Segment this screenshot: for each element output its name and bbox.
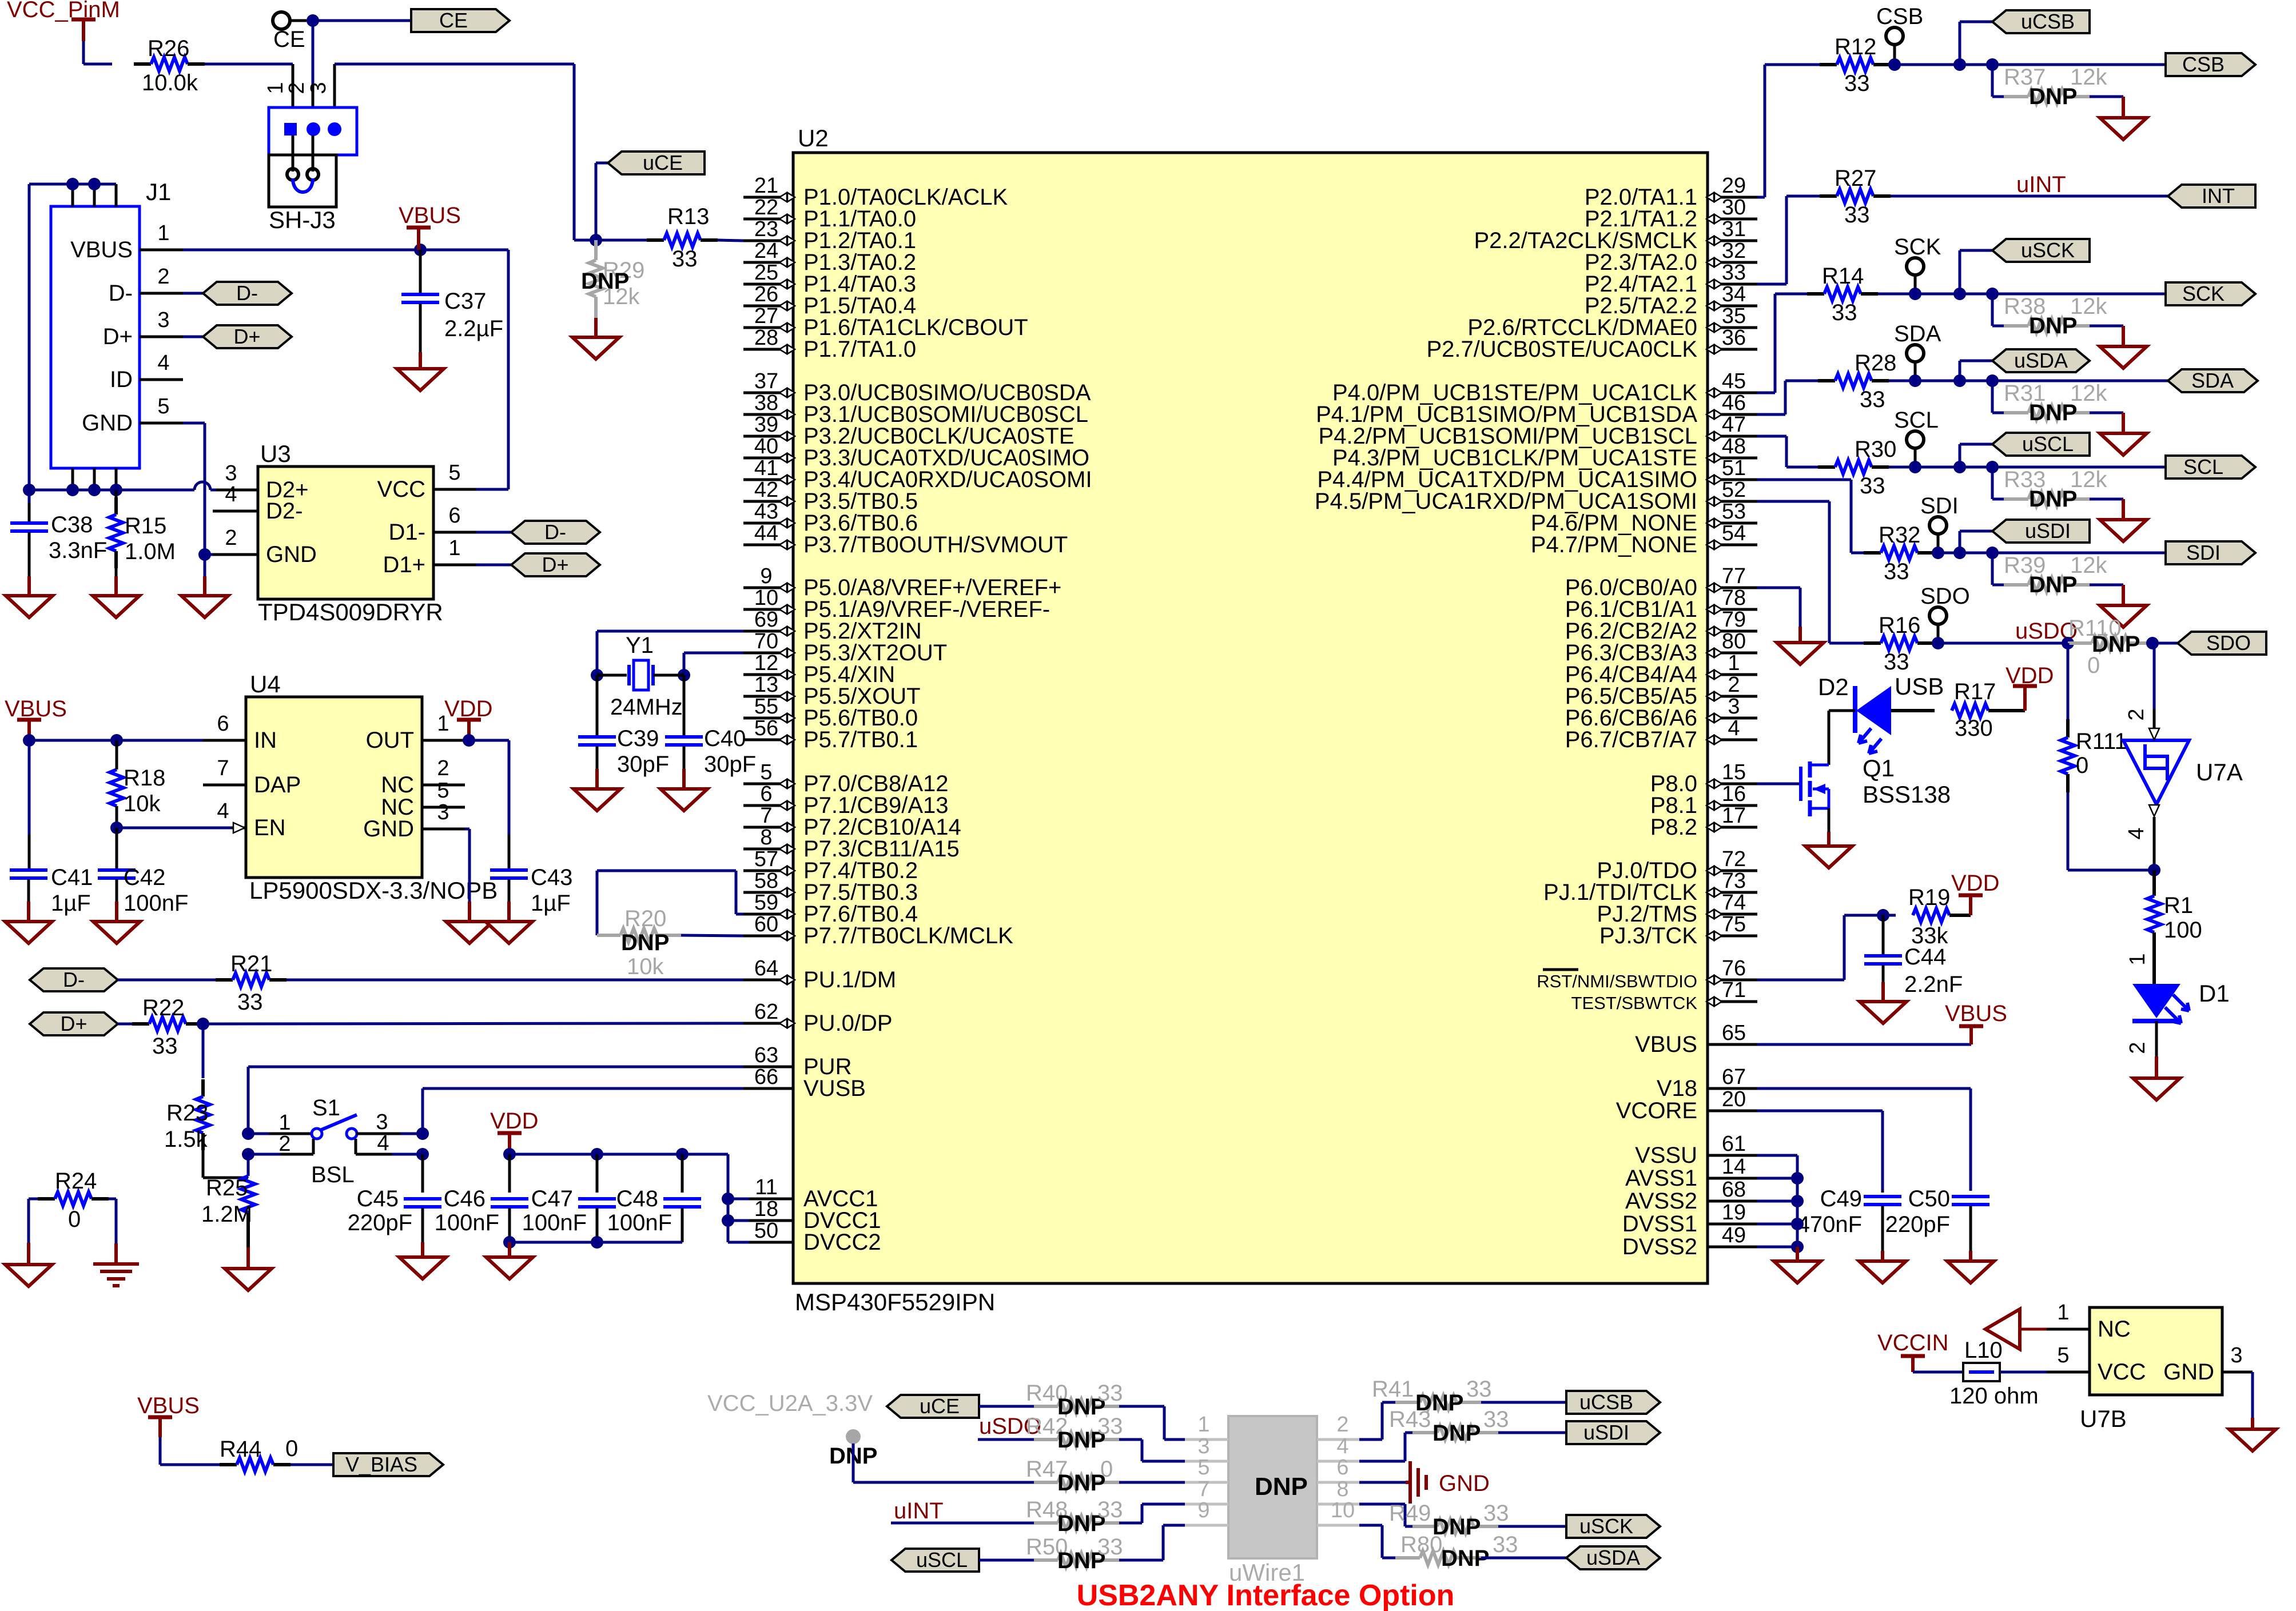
junction VSS AVSS1 (1791, 1172, 1804, 1185)
power flag VBUS (U4) (5, 696, 67, 740)
svg-text:12k: 12k (2070, 381, 2107, 406)
U2 pin 75 PJ.3/TCK (1599, 912, 1757, 948)
svg-text:DVCC2: DVCC2 (803, 1230, 881, 1255)
junction SCL 3 (1986, 461, 1999, 473)
junction SDA 2 (1953, 374, 1966, 387)
svg-text:CSB: CSB (1876, 4, 1923, 29)
svg-text:BSS138: BSS138 (1863, 781, 1951, 808)
svg-text:SCL: SCL (1894, 408, 1939, 433)
svg-text:D+: D+ (60, 1012, 87, 1035)
svg-text:D2: D2 (1818, 673, 1849, 700)
wire CE node to port (313, 19, 411, 22)
U4 pin 3 GND (363, 800, 465, 842)
U2 pin 39 P3.2/UCB0CLK/UCA0STE (743, 413, 1075, 449)
svg-text:60: 60 (754, 912, 778, 936)
svg-text:33: 33 (672, 246, 698, 272)
svg-text:12: 12 (754, 651, 778, 675)
U2 pin 42 P3.5/TB0.5 (743, 478, 918, 514)
svg-text:R19: R19 (1908, 885, 1950, 910)
testpoint CSB (1876, 4, 1923, 65)
wire U4 GND to ground (465, 829, 469, 902)
U2 pin 59 P7.6/TB0.4 (743, 891, 918, 927)
ground below R39 (2100, 585, 2147, 627)
resistor R23 1.5k (164, 1024, 248, 1178)
wire to SDO port (2152, 642, 2178, 645)
wire uWire1 pin6 to GND (1359, 1481, 1406, 1484)
svg-text:D+: D+ (542, 553, 568, 576)
port V_BIAS (333, 1453, 443, 1476)
svg-text:1: 1 (264, 82, 288, 94)
capacitor C45 220pF (348, 1154, 441, 1242)
svg-text:D1+: D1+ (383, 552, 426, 577)
svg-text:V18: V18 (1657, 1076, 1697, 1101)
svg-text:58: 58 (754, 869, 778, 893)
svg-text:R28: R28 (1855, 350, 1896, 376)
junction VBUS-C41 (23, 734, 35, 747)
wire to uSDI port (1960, 531, 1992, 553)
svg-text:53: 53 (1722, 500, 1746, 524)
svg-text:VBUS: VBUS (137, 1393, 200, 1418)
svg-text:80: 80 (1722, 629, 1746, 653)
svg-text:C39: C39 (617, 726, 659, 751)
svg-text:33: 33 (237, 990, 263, 1015)
resistor R28 33 (1818, 350, 2168, 412)
svg-text:L10: L10 (1964, 1338, 2003, 1363)
svg-text:VCC: VCC (377, 477, 425, 502)
svg-text:0: 0 (285, 1436, 298, 1461)
resistor R16 33 (1864, 613, 2068, 675)
svg-text:12k: 12k (2070, 65, 2107, 90)
U2 pin 70 P5.3/XT2OUT (743, 629, 947, 665)
svg-text:R12: R12 (1835, 34, 1876, 59)
ground below P6.0 wire (1777, 627, 1824, 664)
connector uWire1 (DNP, grey) (1228, 1416, 1317, 1586)
svg-text:R44: R44 (220, 1437, 261, 1462)
port uCE (bottom) (887, 1395, 979, 1418)
svg-text:2: 2 (2124, 708, 2148, 720)
resistor R47 DNP 0 (grey) (1026, 1457, 1119, 1496)
svg-text:10: 10 (754, 586, 778, 610)
svg-text:5: 5 (760, 760, 772, 784)
junction CE node (307, 14, 319, 27)
power flag VDD (U4 OUT) (444, 696, 492, 740)
U4 pin 7 DAP (203, 756, 301, 797)
junction D+ node (197, 1018, 209, 1030)
resistor R27 33 (1820, 166, 2168, 228)
U2 pin 15 P8.0 (1650, 760, 1757, 796)
resistor R42 DNP 33 (grey) (978, 1414, 1123, 1453)
svg-text:PU.1/DM: PU.1/DM (803, 967, 896, 992)
resistor R25 1.2M (201, 1154, 255, 1247)
svg-text:8: 8 (1336, 1477, 1348, 1501)
svg-text:50: 50 (754, 1219, 778, 1243)
svg-text:DNP: DNP (1255, 1473, 1308, 1501)
power port GND (1406, 1461, 1490, 1504)
U2 pin 55 P5.6/TB0.0 (743, 695, 918, 731)
svg-text:220pF: 220pF (348, 1210, 412, 1235)
svg-text:3: 3 (1197, 1434, 1209, 1458)
U3 pin 6 D1- (389, 504, 476, 545)
resistor R40 DNP 33 (grey) (979, 1381, 1123, 1419)
svg-text:NC: NC (2098, 1317, 2131, 1342)
U2 pin 72 PJ.0/TDO (1597, 847, 1757, 883)
svg-text:PU.0/DP: PU.0/DP (803, 1011, 893, 1036)
svg-text:R30: R30 (1855, 437, 1896, 462)
U2 pin 73 PJ.1/TDI/TCLK (1543, 869, 1757, 905)
svg-text:33: 33 (1483, 1407, 1509, 1432)
svg-text:R18: R18 (124, 765, 165, 791)
svg-text:GND: GND (266, 542, 317, 567)
svg-text:C41: C41 (51, 865, 93, 890)
ground below C45 (399, 1242, 446, 1279)
testpoint SDO (1920, 584, 1970, 643)
U2 pin 60 P7.7/TB0CLK/MCLK (743, 912, 1013, 948)
resistor R12 33 (1820, 34, 2166, 96)
U2 pin 77 P6.0/CB0/A0 (1565, 564, 1757, 600)
svg-text:33: 33 (1097, 1534, 1123, 1560)
svg-text:VCC_PinM: VCC_PinM (7, 0, 120, 22)
wire VCCIN to L10 (1913, 1371, 1963, 1374)
svg-text:SDI: SDI (1920, 493, 1959, 519)
transistor Q1 BSS138 (1757, 755, 1951, 816)
junction J1 top rail (66, 178, 79, 190)
svg-text:70: 70 (754, 629, 778, 653)
svg-text:R24: R24 (55, 1169, 97, 1194)
J1 pin 4 ID (110, 351, 183, 392)
svg-text:32: 32 (1722, 239, 1746, 263)
wire uWire1 pin10 to R80 (1359, 1525, 1395, 1558)
svg-text:33: 33 (1844, 202, 1870, 228)
resistor R29 DNP 12k (grey) (581, 240, 644, 318)
port uCE (top) (608, 151, 705, 174)
power flag VCC_PinM (7, 0, 120, 41)
svg-text:VCC_U2A_3.3V: VCC_U2A_3.3V (707, 1391, 873, 1416)
resistor R43 DNP 33 (grey) (1389, 1407, 1509, 1446)
wire P2.0 to R12 (1757, 65, 1821, 197)
U2 pin 20 VCORE (1616, 1087, 1757, 1123)
junction VSS AVSS2 (1791, 1195, 1804, 1207)
svg-text:VDD: VDD (444, 696, 492, 721)
wire Q1 source to ground (1828, 808, 1831, 832)
svg-text:C47: C47 (531, 1186, 573, 1211)
power flag VDD (C46) (490, 1108, 538, 1154)
svg-text:5: 5 (1197, 1456, 1209, 1480)
ground below D1 (2133, 1078, 2180, 1100)
svg-text:RST/NMI/SBWTDIO: RST/NMI/SBWTDIO (1537, 971, 1697, 991)
svg-text:10k: 10k (627, 954, 664, 979)
port D+ (J1) (183, 325, 292, 348)
wire U7B GND to ground (2251, 1372, 2254, 1429)
svg-text:D1-: D1- (389, 520, 425, 545)
svg-text:29: 29 (1722, 174, 1746, 198)
port SDA (2168, 369, 2258, 392)
svg-text:15: 15 (1722, 760, 1746, 784)
resistor R41 DNP 33 (grey) (1372, 1377, 1492, 1415)
svg-text:1µF: 1µF (51, 891, 91, 916)
svg-text:D-: D- (544, 520, 566, 544)
wire R47 to uWire1 pin5 (1119, 1481, 1185, 1484)
junction SDA 1 (1909, 374, 1921, 387)
J1 bottom pins rail to U3 (29, 468, 258, 490)
junction SCK 1 (1909, 288, 1921, 300)
wire VBUS to U4 IN (29, 739, 203, 742)
wire SH-J3 pin3 up and right to R13 net (335, 64, 596, 240)
svg-text:VCORE: VCORE (1616, 1098, 1697, 1123)
svg-text:SCK: SCK (1894, 234, 1941, 260)
svg-text:45: 45 (1722, 369, 1746, 393)
resistor R1 100 (2126, 870, 2202, 984)
U2 pin 43 P3.6/TB0.6 (743, 500, 918, 536)
buffer U7A (2123, 708, 2243, 839)
capacitor C39 30pF (578, 675, 669, 777)
port uSCK (bottom) (1566, 1515, 1660, 1538)
junction SDO port node (2146, 637, 2159, 649)
svg-text:J1: J1 (146, 178, 171, 205)
wire uWire1 pin4 to R43 (1359, 1433, 1412, 1461)
port SCL (2166, 456, 2255, 478)
resistor R21 33 (118, 951, 743, 1015)
svg-text:AVSS1: AVSS1 (1625, 1166, 1697, 1191)
wire to uCE port (595, 163, 598, 240)
capacitor C50 220pF (1885, 1186, 1989, 1251)
ground below C38 (6, 576, 53, 617)
junction SCK 2 (1953, 288, 1966, 300)
uWire1 pin 4 (1317, 1434, 1359, 1461)
svg-text:6: 6 (217, 712, 229, 736)
ground below U7B (2229, 1429, 2276, 1451)
svg-text:4: 4 (225, 482, 237, 507)
svg-text:D1: D1 (2199, 980, 2230, 1007)
svg-text:49: 49 (1722, 1223, 1746, 1247)
ground below R31 (2100, 413, 2147, 455)
svg-text:0: 0 (68, 1207, 81, 1232)
svg-text:SDO: SDO (1920, 584, 1970, 609)
svg-text:9: 9 (1197, 1498, 1209, 1522)
svg-text:17: 17 (1722, 804, 1746, 828)
svg-text:3: 3 (376, 1110, 388, 1134)
svg-text:C45: C45 (357, 1186, 399, 1211)
junction J1 top rail 2 (88, 178, 101, 190)
resistor R50 DNP 33 (grey) (979, 1534, 1123, 1573)
junction R13 net (590, 234, 602, 246)
wire P4.1 to R28 (1757, 381, 1818, 414)
junction CSB 3 (1986, 58, 1999, 71)
svg-text:U7A: U7A (2196, 759, 2243, 785)
uWire1 pin 6 (1317, 1456, 1359, 1482)
svg-text:C40: C40 (704, 726, 746, 751)
svg-text:D+: D+ (233, 325, 260, 348)
U2 pin 76 RST/NMI/SBWTDIO (1537, 956, 1757, 991)
svg-text:33: 33 (1844, 71, 1870, 96)
svg-text:VBUS: VBUS (70, 237, 133, 262)
svg-text:25: 25 (754, 261, 778, 285)
wire uINT to R48 (891, 1522, 1034, 1525)
resistor R15 1.0M (109, 490, 176, 576)
port D- (J1) (183, 281, 292, 305)
svg-text:46: 46 (1722, 391, 1746, 415)
resistor R110 DNP 0 (grey) (2068, 616, 2152, 678)
svg-text:C49: C49 (1820, 1186, 1862, 1211)
svg-text:R17: R17 (1954, 679, 1996, 704)
svg-text:C50: C50 (1908, 1186, 1950, 1211)
ground below C44 (1860, 982, 1907, 1023)
wire U7A output to R1 (2153, 817, 2156, 870)
wire VCORE to C49 (1757, 1111, 1883, 1191)
svg-text:1.2M: 1.2M (201, 1202, 252, 1227)
junction CSB 1 (1888, 58, 1901, 71)
U7B pin 3 GND (2163, 1343, 2253, 1385)
svg-text:SDA: SDA (1894, 321, 1941, 346)
GND rail under C46-C48 (510, 1241, 682, 1244)
svg-text:5: 5 (437, 779, 449, 803)
junction U3 GND node (198, 548, 211, 561)
svg-text:36: 36 (1722, 326, 1746, 350)
svg-text:P4.7/PM_NONE: P4.7/PM_NONE (1531, 532, 1697, 557)
U3 pin 1 D1+ (383, 536, 477, 577)
U2 pin 64 PU.1/DM (743, 956, 896, 992)
U2 pin 38 P3.1/UCB0SOMI/UCB0SCL (743, 391, 1088, 427)
wire P4.0 to R14 (1757, 294, 1808, 393)
wire P4.4 to R32 (1757, 480, 1864, 553)
svg-text:27: 27 (754, 304, 778, 328)
U2 pin 66 VUSB (743, 1065, 866, 1101)
svg-text:2: 2 (437, 756, 449, 780)
svg-text:10k: 10k (124, 791, 161, 816)
U2 pin 14 AVSS1 (1625, 1155, 1757, 1191)
svg-text:220pF: 220pF (1885, 1212, 1950, 1237)
ground below Q1 (1805, 832, 1852, 868)
capacitor C46 100nF (435, 1154, 528, 1242)
svg-text:P6.7/CB7/A7: P6.7/CB7/A7 (1565, 727, 1697, 752)
testpoint SCK (1894, 234, 1941, 294)
svg-text:uSCK: uSCK (2021, 238, 2075, 262)
svg-text:R27: R27 (1835, 166, 1876, 191)
svg-text:1.0M: 1.0M (125, 539, 176, 564)
svg-text:VCC: VCC (2098, 1359, 2146, 1385)
svg-text:10: 10 (1331, 1498, 1355, 1522)
svg-text:330: 330 (1955, 716, 1993, 741)
jumper SH-J3 (264, 82, 357, 233)
svg-text:33: 33 (1483, 1501, 1509, 1526)
svg-text:C38: C38 (51, 512, 93, 537)
svg-text:Q1: Q1 (1863, 755, 1895, 781)
svg-text:19: 19 (1722, 1201, 1746, 1225)
wire P4.5 to R16 (1757, 501, 1864, 643)
U2 pin 19 DVSS1 (1622, 1201, 1757, 1237)
U2 MSP430F5529IPN body (793, 153, 1708, 1283)
resistor R20 DNP 10k (grey) (597, 906, 681, 979)
ground below C49 (1859, 1251, 1906, 1283)
svg-text:uSDI: uSDI (1583, 1421, 1629, 1444)
svg-text:3: 3 (437, 800, 449, 824)
svg-text:D2-: D2- (266, 499, 303, 524)
svg-text:16: 16 (1722, 782, 1746, 806)
svg-text:SDI: SDI (2186, 541, 2221, 564)
svg-text:R43: R43 (1389, 1407, 1431, 1432)
svg-text:74: 74 (1722, 891, 1746, 915)
svg-text:C37: C37 (444, 289, 486, 314)
svg-text:C46: C46 (444, 1186, 486, 1211)
svg-text:7: 7 (1197, 1477, 1209, 1501)
svg-text:67: 67 (1722, 1065, 1746, 1089)
crystal Y1 24MHz (597, 633, 684, 720)
svg-text:43: 43 (754, 500, 778, 524)
wire D1 to ground (2155, 1021, 2158, 1078)
junction VSS DVSS2 (1791, 1241, 1804, 1253)
svg-text:R16: R16 (1879, 613, 1920, 638)
svg-text:SH-J3: SH-J3 (269, 206, 336, 233)
wire P6.0 to ground (1757, 588, 1800, 627)
junction S1 left row1 (242, 1127, 254, 1140)
ground below U3 GND node (181, 555, 228, 617)
svg-text:20: 20 (1722, 1087, 1746, 1111)
svg-text:4: 4 (1336, 1434, 1348, 1458)
svg-text:R14: R14 (1822, 264, 1864, 289)
wire R50 to uWire1 pin9 (1119, 1525, 1185, 1560)
U2 pin 8 P7.3/CB11/A15 (743, 826, 960, 862)
svg-text:23: 23 (754, 217, 778, 241)
resistor R32 33 (1864, 523, 2166, 584)
U2 pin 3 P6.6/CB6/A6 (1565, 695, 1757, 731)
svg-text:NC: NC (381, 772, 414, 797)
svg-text:54: 54 (1722, 521, 1746, 545)
svg-text:57: 57 (754, 847, 778, 871)
junction EN-C42 (110, 822, 123, 834)
J1 pin 3 D+ (103, 308, 183, 349)
ground below C37 (397, 352, 444, 390)
svg-text:68: 68 (1722, 1178, 1746, 1202)
svg-text:2: 2 (278, 1132, 291, 1156)
svg-text:39: 39 (754, 413, 778, 437)
svg-text:71: 71 (1722, 978, 1746, 1002)
testpoint SCL (1894, 408, 1939, 467)
svg-text:U4: U4 (250, 671, 281, 697)
U2 pin 45 P4.0/PM_UCB1STE/PM_UCA1CLK (1332, 369, 1757, 405)
svg-text:LP5900SDX-3.3/NOPB: LP5900SDX-3.3/NOPB (249, 877, 498, 904)
uWire1 pin 8 (1317, 1477, 1359, 1504)
U2 pin 5 P7.0/CB8/A12 (743, 760, 949, 796)
resistor R49 DNP 33 (grey) (1389, 1501, 1509, 1540)
port SDI (2166, 541, 2255, 564)
port SCK (2166, 282, 2255, 305)
svg-text:U3: U3 (260, 440, 291, 467)
U2 pin 65 VBUS (1635, 1021, 1757, 1057)
U2 pin 51 P4.4/PM_UCA1TXD/PM_UCA1SIMO (1317, 456, 1757, 492)
svg-text:12k: 12k (2070, 294, 2107, 319)
svg-text:4: 4 (2124, 827, 2148, 839)
svg-text:33: 33 (1884, 649, 1909, 675)
ground below R38 (2100, 326, 2147, 368)
wire P2.4 to R27 (1757, 196, 1821, 284)
svg-text:DNP: DNP (1057, 1470, 1105, 1496)
ground below C41 (5, 902, 52, 943)
svg-text:73: 73 (1722, 869, 1746, 893)
svg-text:R23: R23 (166, 1100, 208, 1126)
port uSDA (bottom) (1566, 1546, 1660, 1569)
svg-text:7: 7 (760, 804, 772, 828)
power flag VBUS (pin65) (1945, 1001, 2007, 1044)
resistor R80 DNP 33 (grey) (1395, 1532, 1518, 1571)
wire RST to R19/C44 (1757, 915, 1896, 980)
svg-text:33: 33 (152, 1034, 178, 1059)
resistor R38 DNP 12k (grey) (1992, 294, 2123, 338)
svg-text:VBUS: VBUS (1945, 1001, 2007, 1026)
svg-text:33: 33 (1097, 1497, 1123, 1522)
svg-text:uINT: uINT (2016, 172, 2066, 197)
inductor L10 120 ohm (1949, 1338, 2039, 1409)
U2 pin 6 P7.1/CB9/A13 (743, 782, 949, 818)
svg-text:S1: S1 (312, 1095, 340, 1120)
